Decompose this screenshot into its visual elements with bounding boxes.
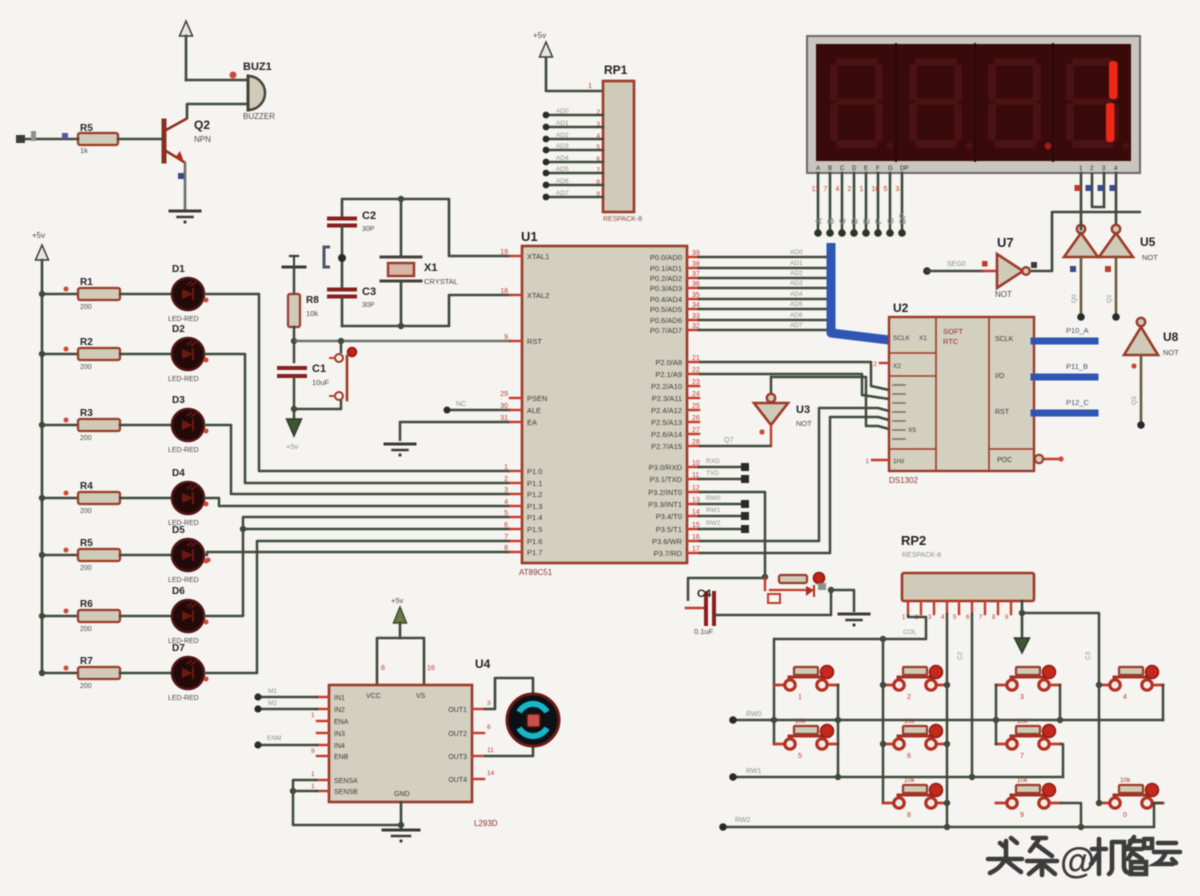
svg-text:6: 6	[596, 156, 600, 163]
svg-text:0.1uF: 0.1uF	[694, 627, 714, 636]
wire col2 right vertical	[944, 682, 950, 688]
wire display segment pin F	[877, 173, 880, 231]
wire crystal bottom	[342, 281, 401, 326]
wire col3 row3 to RW2	[1060, 803, 1081, 827]
wire col3 right vertical (RW0)	[1059, 685, 1062, 720]
svg-text:200: 200	[80, 565, 92, 572]
svg-text:P0.4/AD4: P0.4/AD4	[650, 295, 682, 304]
svg-text:F: F	[876, 166, 880, 172]
svg-text:R5: R5	[80, 123, 93, 134]
pin U4 OUT3	[472, 755, 484, 757]
svg-text:1: 1	[504, 464, 508, 471]
diode cluster (alarm)	[764, 578, 766, 590]
svg-text:9: 9	[596, 191, 600, 198]
svg-text:12: 12	[692, 485, 700, 492]
bus U2 output P12_C	[1034, 410, 1095, 417]
svg-text:ENM: ENM	[267, 735, 281, 742]
pin RP2 2	[920, 601, 922, 614]
svg-text:NOT: NOT	[995, 290, 1012, 299]
wire rail to R1	[42, 293, 78, 296]
svg-text:BUZZER: BUZZER	[243, 112, 275, 121]
button K4 (row1 col4)	[1099, 684, 1109, 687]
wire RP1 pin2	[546, 114, 603, 117]
svg-text:M2: M2	[268, 700, 277, 707]
svg-text:D: D	[852, 166, 857, 172]
svg-text:D1: D1	[172, 264, 185, 275]
svg-text:RESPACK-8: RESPACK-8	[603, 216, 642, 223]
pin P2.3 (24)	[687, 397, 699, 399]
svg-text:D: D	[851, 218, 860, 224]
node crystal bottom junction	[398, 323, 404, 329]
pin P2.6 (27)	[687, 433, 699, 435]
svg-text:LED-RED: LED-RED	[168, 577, 199, 584]
svg-text:AD7: AD7	[790, 322, 803, 329]
svg-text:3: 3	[504, 487, 508, 494]
wire R5 to D5	[120, 554, 172, 557]
wire D4 to P1.3	[204, 498, 510, 506]
svg-text:IN3: IN3	[334, 731, 345, 738]
svg-text:30: 30	[500, 403, 508, 410]
pin P3.3 (13)	[687, 503, 699, 505]
svg-text:RP2: RP2	[901, 533, 926, 548]
display ghost digit 1	[836, 58, 878, 66]
svg-text:3: 3	[487, 700, 491, 707]
push button (reset)	[340, 341, 343, 352]
ground arrow (reset)	[287, 419, 302, 436]
svg-text:200: 200	[80, 435, 92, 442]
node rail junction R2	[39, 351, 45, 357]
wire D2 to P1.1	[204, 354, 510, 483]
svg-text:10k: 10k	[1120, 777, 1131, 784]
pin U4 ENA	[317, 720, 329, 722]
svg-text:IN2: IN2	[334, 707, 345, 714]
pin U4 OUT1	[472, 708, 484, 710]
resistor R7	[78, 667, 120, 679]
svg-text:P3.1/TXD: P3.1/TXD	[649, 475, 682, 484]
wire RP1 pin3	[546, 126, 603, 129]
capacitor C1	[293, 341, 296, 362]
svg-text:4: 4	[504, 499, 508, 506]
ground (U4)	[383, 829, 419, 832]
svg-text:23: 23	[692, 379, 700, 386]
pin P0.0 (39)	[687, 256, 699, 258]
svg-text:1: 1	[588, 83, 592, 90]
svg-text:9: 9	[504, 334, 508, 341]
pin P2.2 (23)	[687, 385, 699, 387]
svg-text:X1: X1	[424, 262, 437, 274]
svg-text:B: B	[828, 166, 832, 172]
svg-text:I/O: I/O	[995, 373, 1005, 380]
wire col4 row3 to RW2 end	[1154, 803, 1163, 827]
wire P3.0 terminal	[699, 466, 741, 469]
pin P3.6 (16)	[687, 540, 699, 542]
wire tap to P1.5	[243, 528, 510, 531]
svg-text:RTC: RTC	[943, 337, 959, 346]
wire row RW0	[733, 719, 1163, 722]
wire R5 to Q2 base	[118, 138, 161, 141]
svg-text:P3.6/WR: P3.6/WR	[652, 537, 683, 546]
wire RW0 terminal	[699, 503, 741, 506]
bus vertical (display)	[831, 243, 889, 340]
wire P2.1 to U2	[699, 374, 889, 399]
wire RP1 pin7	[546, 172, 603, 175]
svg-text:RST: RST	[995, 409, 1010, 416]
svg-text:AD3: AD3	[790, 280, 803, 287]
wire P3.7 to U2	[699, 417, 889, 553]
svg-text:Q0: Q0	[1071, 294, 1078, 303]
svg-text:8: 8	[907, 812, 911, 819]
svg-text:6: 6	[907, 753, 911, 760]
svg-text:2: 2	[504, 476, 508, 483]
svg-text:AD5: AD5	[556, 166, 569, 173]
svg-text:U3: U3	[796, 404, 810, 416]
svg-text:R1: R1	[80, 277, 93, 288]
wire P2.0 to U2	[699, 362, 889, 390]
crystal X1	[400, 199, 403, 256]
svg-text:D7: D7	[172, 643, 185, 654]
button K7 (row2 col3)	[996, 743, 1006, 746]
svg-text:PSEN: PSEN	[527, 394, 547, 403]
svg-text:Q7: Q7	[724, 437, 733, 444]
svg-text:X5: X5	[908, 427, 916, 434]
wire P0.7 to bus	[699, 329, 826, 332]
pin XTAL2 (18)	[510, 294, 522, 296]
resistor R3	[78, 419, 120, 431]
svg-text:1: 1	[311, 771, 315, 778]
svg-text:Q1: Q1	[1106, 294, 1113, 303]
wire C2 to C3	[341, 226, 344, 290]
svg-text:DP: DP	[900, 166, 908, 172]
svg-text:1: 1	[311, 783, 315, 790]
svg-text:LED-RED: LED-RED	[168, 447, 199, 454]
ground (buzzer emitter)	[170, 210, 200, 213]
svg-text:B: B	[827, 218, 836, 224]
wire display segment pin G	[889, 173, 892, 231]
svg-text:16: 16	[427, 665, 435, 672]
svg-text:SENSA: SENSA	[334, 778, 358, 785]
buzzer BUZ1	[248, 76, 265, 110]
svg-text:8: 8	[504, 545, 508, 552]
pin P1.2 (3)	[510, 493, 522, 495]
svg-text:P0.5/AD5: P0.5/AD5	[650, 305, 682, 314]
pin U4 OUT2	[472, 732, 484, 734]
pin U4 IN1	[317, 696, 329, 698]
wire P3.1 terminal	[699, 478, 741, 481]
svg-text:21: 21	[692, 355, 700, 362]
svg-text:C: C	[839, 218, 848, 224]
op-amp U1 AT89C51 body	[522, 246, 687, 563]
wire display digit pin 1	[1080, 173, 1083, 222]
svg-text:IN1: IN1	[334, 695, 345, 702]
svg-text:P0.1/AD1: P0.1/AD1	[650, 264, 682, 273]
button K8 (row3 col2)	[883, 802, 893, 805]
svg-text:P2.2/A10: P2.2/A10	[651, 382, 682, 391]
wire P3.2 to C4 junction	[699, 492, 765, 577]
svg-text:ENB: ENB	[334, 754, 349, 761]
svg-text:+5v: +5v	[32, 231, 45, 240]
pin RP2 3	[933, 601, 935, 614]
svg-text:DP: DP	[899, 212, 908, 224]
svg-text:10: 10	[872, 186, 880, 193]
svg-text:RW1: RW1	[706, 507, 721, 514]
svg-text:U2: U2	[893, 301, 909, 315]
svg-text:RP1: RP1	[604, 63, 628, 77]
pin U2 1Hz stub	[872, 459, 889, 461]
svg-text:17: 17	[692, 546, 700, 553]
wire col1 right vertical	[837, 685, 840, 777]
pin P1.6 (7)	[510, 540, 522, 542]
wire P3.6 to U2	[699, 408, 889, 541]
wire col4 right vertical (RW0 end)	[1162, 685, 1165, 720]
svg-text:A: A	[815, 218, 824, 224]
svg-text:C4: C4	[697, 588, 712, 600]
svg-text:P0.3/AD3: P0.3/AD3	[650, 284, 682, 293]
svg-text:1k: 1k	[80, 146, 88, 155]
pin P0.2 (37)	[687, 277, 699, 279]
svg-text:10k: 10k	[795, 718, 806, 725]
svg-text:NOT: NOT	[1163, 348, 1179, 357]
svg-text:Q2: Q2	[194, 118, 210, 132]
svg-text:ENA: ENA	[334, 719, 349, 726]
power +5V arrow (buzzer supply)	[180, 21, 193, 36]
svg-text:28: 28	[692, 439, 700, 446]
svg-text:C1: C1	[312, 363, 326, 375]
svg-text:P1.0: P1.0	[527, 467, 542, 476]
pin RST (9)	[510, 340, 522, 342]
svg-text:P1.4: P1.4	[527, 513, 542, 522]
wire rail to R7	[42, 672, 78, 675]
pin P1.1 (2)	[510, 482, 522, 484]
svg-text:19: 19	[500, 249, 508, 256]
svg-text:10k: 10k	[1017, 718, 1028, 725]
svg-text:OUT4: OUT4	[448, 777, 467, 784]
svg-text:SCLK: SCLK	[995, 336, 1014, 343]
svg-text:OUT3: OUT3	[448, 754, 467, 761]
svg-text:5: 5	[884, 186, 888, 193]
wire RST to U1	[294, 340, 510, 343]
wire R1 to D1	[120, 293, 172, 296]
wire rail to R5	[42, 554, 78, 557]
wire U7 output to U8	[1031, 212, 1141, 271]
inverter U5	[1064, 233, 1098, 257]
pin P1.0 (1)	[510, 470, 522, 472]
LED D6	[172, 600, 204, 632]
resistor R4	[78, 492, 120, 504]
wire P0.5 to bus	[699, 308, 826, 311]
svg-text:7: 7	[504, 534, 508, 541]
ground arrow (RP2)	[1015, 638, 1030, 653]
svg-text:R8: R8	[306, 295, 319, 306]
bus U2 output P11_B	[1034, 374, 1095, 381]
pin P3.5 (15)	[687, 528, 699, 530]
svg-text:14: 14	[487, 770, 495, 777]
svg-text:R4: R4	[80, 481, 93, 492]
wire display segment pin C	[841, 173, 844, 231]
svg-text:P3.4/T0: P3.4/T0	[656, 512, 682, 521]
wire col3 right to RW1	[1060, 744, 1063, 777]
svg-text:COL: COL	[903, 629, 917, 636]
svg-text:30P: 30P	[362, 226, 375, 233]
wire U3 input to U2	[771, 377, 889, 429]
pin PSEN (29)	[510, 397, 522, 399]
pin P2.0 (21)	[687, 361, 699, 363]
svg-text:10k: 10k	[904, 718, 915, 725]
wire display segment pin B	[829, 173, 832, 231]
wire Q2 emitter to ground	[184, 163, 187, 209]
wire ALE terminal	[447, 409, 510, 412]
svg-text:1: 1	[798, 694, 802, 701]
svg-text:AD2: AD2	[790, 270, 803, 277]
svg-text:1: 1	[865, 458, 869, 465]
wire R8 to RST	[293, 327, 296, 341]
svg-text:10k: 10k	[904, 777, 915, 784]
svg-text:OUT2: OUT2	[448, 731, 467, 738]
pin U4 SENSB	[317, 790, 329, 792]
wire col3 left vertical	[995, 685, 998, 744]
LED D3	[172, 409, 204, 441]
wire col2 vertical	[882, 639, 885, 803]
wire RP2 common to col4	[1022, 612, 1092, 615]
wire D5 to P1.7	[204, 552, 510, 555]
svg-text:C2: C2	[362, 210, 376, 222]
wire R2 to D2	[120, 353, 172, 356]
svg-text:SOFT: SOFT	[943, 327, 963, 336]
wire RP1 pin5	[546, 149, 603, 152]
svg-text:1: 1	[860, 186, 864, 193]
pin P2.7 (28)	[687, 445, 699, 447]
svg-text:LED-RED: LED-RED	[168, 376, 199, 383]
pin RP2 4	[946, 601, 948, 614]
svg-text:EA: EA	[527, 418, 537, 427]
wire U8 bottom	[1140, 355, 1143, 423]
svg-text:E: E	[863, 218, 872, 224]
svg-text:P3.7/RD: P3.7/RD	[654, 549, 683, 558]
svg-text:26: 26	[692, 415, 700, 422]
svg-text:OUT1: OUT1	[448, 707, 467, 714]
power bar (R8 top)	[283, 266, 305, 269]
transistor Q2	[162, 121, 167, 161]
svg-text:C2: C2	[957, 651, 964, 660]
svg-text:200: 200	[80, 304, 92, 311]
pin RP2 9	[1010, 601, 1012, 614]
wire EA to ground	[400, 422, 510, 441]
svg-text:XTAL1: XTAL1	[527, 252, 549, 261]
svg-text:9: 9	[311, 748, 315, 755]
svg-text:3: 3	[896, 186, 900, 193]
svg-text:SEG0: SEG0	[947, 261, 966, 268]
wire RP1 pin1	[546, 57, 603, 91]
svg-text:P0.0/AD0: P0.0/AD0	[650, 253, 682, 262]
svg-text:P1.3: P1.3	[527, 502, 542, 511]
pin P1.7 (8)	[510, 551, 522, 553]
svg-text:3: 3	[596, 121, 600, 128]
wire C1 to ground arrow	[293, 376, 296, 419]
svg-text:11: 11	[487, 747, 494, 754]
svg-text:24: 24	[692, 391, 700, 398]
pin P2.4 (25)	[687, 409, 699, 411]
node button top junction	[338, 338, 344, 344]
pin RP2 7	[984, 601, 986, 614]
wire junction to C4	[688, 578, 765, 601]
svg-text:AD6: AD6	[790, 312, 803, 319]
pin P2.5 (26)	[687, 421, 699, 423]
svg-text:RW2: RW2	[735, 817, 751, 824]
svg-text:AD0: AD0	[556, 108, 569, 115]
wire SENS loop to ground	[293, 780, 401, 825]
svg-text:C3: C3	[1085, 651, 1092, 660]
wire display digit pin 3	[1103, 173, 1106, 207]
pin P2.1 (22)	[687, 373, 699, 375]
svg-text:D3: D3	[172, 395, 185, 406]
svg-text:VS: VS	[416, 693, 426, 700]
svg-text:0: 0	[1123, 812, 1127, 819]
svg-text:G: G	[887, 218, 896, 224]
resistor R2	[78, 348, 120, 360]
svg-text:16: 16	[692, 534, 700, 541]
wire U5 input	[1080, 257, 1083, 316]
svg-text:TXD: TXD	[706, 470, 719, 477]
svg-text:NC: NC	[456, 401, 466, 408]
wire IN2 terminal	[258, 708, 317, 711]
LED D2	[172, 338, 204, 370]
svg-text:3: 3	[1020, 694, 1024, 701]
wire P0.6 to bus	[699, 319, 826, 322]
wire rail to R4	[42, 497, 78, 500]
LED D5	[172, 539, 204, 571]
svg-text:6: 6	[504, 522, 508, 529]
svg-text:D5: D5	[172, 525, 185, 536]
wire P0.3 to bus	[699, 287, 826, 290]
svg-text:U5: U5	[1140, 235, 1156, 249]
pin P1.5 (6)	[510, 528, 522, 530]
svg-text:200: 200	[80, 626, 92, 633]
svg-text:5: 5	[596, 144, 600, 151]
wire buzzer top	[186, 79, 247, 82]
svg-text:RST: RST	[527, 337, 542, 346]
wire buzzer bottom to Q2 collector	[187, 104, 247, 119]
display 4-digit 7SEG frame	[807, 36, 1140, 173]
LED D4	[172, 482, 204, 514]
svg-text:2: 2	[907, 694, 911, 701]
pin U4 IN3	[317, 732, 329, 734]
wire P0.1 to bus	[699, 267, 826, 270]
svg-text:E: E	[864, 166, 868, 172]
wire P0.4 to bus	[699, 298, 826, 301]
node crystal top junction	[398, 196, 404, 202]
svg-text:9: 9	[1020, 812, 1024, 819]
wire +5V to VCC/VS	[377, 638, 424, 685]
pin P1.4 (5)	[510, 516, 522, 518]
wire D3 to P1.2	[204, 425, 510, 494]
wire display segment pin E	[865, 173, 868, 231]
wire RW2 terminal	[699, 528, 741, 531]
svg-text:AD1: AD1	[790, 260, 803, 267]
svg-text:D4: D4	[172, 468, 185, 479]
wire R6 to D6	[120, 615, 172, 618]
svg-text:P2.1/A9: P2.1/A9	[655, 370, 682, 379]
button K3 (row1 col3)	[996, 684, 1006, 687]
svg-text:30P: 30P	[362, 302, 375, 309]
svg-text:27: 27	[692, 427, 700, 434]
wire IN4 terminal	[258, 744, 317, 747]
display lit digit 1 segments	[1109, 61, 1118, 99]
svg-text:+5v: +5v	[391, 596, 404, 605]
svg-text:SCLK: SCLK	[893, 335, 911, 342]
LED D1	[172, 278, 204, 310]
svg-text:8: 8	[596, 179, 600, 186]
wire D1 to P1.0	[204, 294, 510, 471]
svg-text:29: 29	[500, 391, 508, 398]
